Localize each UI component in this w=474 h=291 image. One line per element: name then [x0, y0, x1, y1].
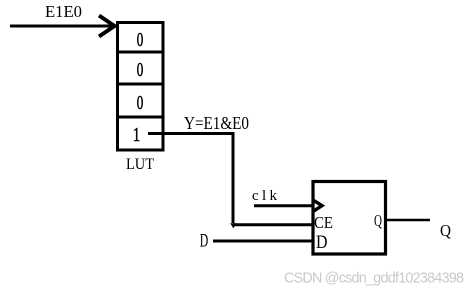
svg-text:1: 1 — [133, 124, 141, 146]
svg-text:0: 0 — [137, 29, 144, 51]
svg-text:clk: clk — [252, 188, 278, 204]
svg-text:D: D — [316, 232, 328, 253]
svg-text:D: D — [200, 231, 209, 252]
svg-text:Q: Q — [440, 221, 451, 240]
svg-text:Q: Q — [374, 211, 382, 230]
svg-text:E1E0: E1E0 — [45, 2, 82, 21]
svg-text:0: 0 — [137, 59, 144, 81]
svg-text:LUT: LUT — [126, 156, 154, 173]
svg-text:CSDN @csdn_gddf102384398: CSDN @csdn_gddf102384398 — [284, 270, 464, 286]
svg-text:CE: CE — [314, 213, 333, 232]
svg-text:0: 0 — [137, 92, 144, 114]
svg-text:Y=E1&E0: Y=E1&E0 — [184, 113, 249, 133]
